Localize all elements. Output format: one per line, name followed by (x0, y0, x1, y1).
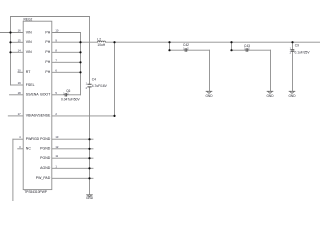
wire C42 drop (169, 42, 171, 50)
wire SS/ENA stub (10, 94, 24, 96)
node VSENSE corner junction (113, 115, 115, 117)
svg-text:VIN: VIN (26, 50, 32, 54)
node C42 row junction (168, 49, 170, 51)
wire top VIN to C4 (11, 16, 90, 18)
node PGND13 junction (88, 138, 90, 140)
svg-text:PH: PH (45, 30, 50, 34)
wire PH pin7 (52, 61, 81, 63)
svg-text:4.7uF/16V: 4.7uF/16V (92, 84, 108, 88)
capacitor C4 plates (65, 48, 294, 96)
wire PWRGD drop (12, 139, 14, 201)
capacitor C6 plates (65, 93, 66, 96)
wire AGND pin1 (52, 167, 93, 169)
wire left VIN bus (10, 17, 12, 86)
svg-text:GND: GND (205, 94, 213, 98)
capacitor C9 plates (291, 50, 295, 52)
svg-text:C4: C4 (92, 78, 96, 82)
svg-text:1: 1 (55, 164, 57, 168)
wire RT stub (18, 71, 23, 73)
wire PH pin8 (52, 51, 81, 53)
wire PGND pin12 (52, 148, 93, 150)
wire PH pin9 (52, 41, 81, 43)
node C9 top junction (291, 41, 293, 43)
svg-text:4: 4 (19, 135, 21, 139)
svg-text:PH: PH (45, 50, 50, 54)
op-amp U1 IC body TPS54310PWP (23, 21, 52, 189)
svg-text:0.1uF/25V: 0.1uF/25V (295, 50, 311, 54)
ground symbol power pad (86, 194, 93, 197)
node VIN input junction (9, 31, 11, 33)
svg-text:REG2: REG2 (24, 17, 33, 21)
svg-text:14: 14 (18, 48, 21, 52)
svg-text:20: 20 (18, 68, 21, 72)
svg-text:PWRGD: PWRGD (26, 137, 40, 141)
svg-text:PW_PAD: PW_PAD (36, 176, 51, 180)
wire C9 bottom lead (292, 51, 294, 91)
svg-text:13: 13 (55, 135, 58, 139)
svg-text:2: 2 (86, 87, 88, 90)
ground symbol under C42 (86, 91, 295, 197)
svg-text:PGND: PGND (40, 147, 51, 151)
node C43 top junction (230, 41, 232, 43)
wire VIN pin15 stub (11, 41, 24, 43)
node PH6 junction (79, 71, 81, 73)
svg-text:PGND: PGND (40, 156, 51, 160)
wire NC stub (18, 148, 23, 150)
ground symbol under C9 (289, 91, 296, 94)
wire PWRGD stub (13, 138, 23, 140)
wire PH pin10 (52, 32, 81, 34)
node VIN15 junction (9, 41, 11, 43)
svg-text:SS/ENA: SS/ENA (26, 93, 40, 97)
wire PGND pin11 (52, 157, 93, 159)
wire PH pin6 (52, 71, 81, 73)
wire PW_PAD (52, 177, 93, 179)
wire C43 ground drop (270, 50, 272, 91)
node PW_PAD junction (88, 177, 90, 179)
svg-text:RT: RT (26, 70, 31, 74)
svg-text:6: 6 (55, 68, 57, 72)
node PH9 junction (79, 41, 81, 43)
wire C4 bottom lead / ground bus (89, 87, 91, 195)
svg-text:GND: GND (266, 94, 274, 98)
svg-text:VSENSE: VSENSE (36, 114, 51, 118)
svg-text:5: 5 (55, 91, 57, 95)
svg-text:PGND: PGND (40, 137, 51, 141)
svg-text:10uH: 10uH (97, 43, 105, 47)
wire C4 top lead (89, 17, 91, 85)
node PH8 junction (79, 51, 81, 53)
capacitor C43 plates (246, 48, 248, 51)
svg-text:FSEL: FSEL (26, 83, 35, 87)
svg-text:8: 8 (55, 48, 57, 52)
wire BOOT to C6 (52, 94, 65, 96)
svg-text:7: 7 (55, 58, 57, 62)
svg-text:10: 10 (55, 29, 58, 33)
capacitor C42 plates (185, 48, 187, 51)
wire C6 to PH bus (67, 94, 81, 96)
svg-text:9: 9 (55, 38, 57, 42)
svg-text:PH: PH (45, 40, 50, 44)
svg-text:VIN: VIN (26, 40, 32, 44)
svg-text:VIN: VIN (26, 30, 32, 34)
wire PH bus (80, 33, 82, 95)
node junction dots (9, 31, 293, 179)
svg-text:GND: GND (86, 196, 94, 200)
wire PGND pin13 (52, 138, 93, 140)
svg-text:18: 18 (18, 91, 21, 95)
svg-text:16: 16 (18, 29, 21, 33)
svg-text:2: 2 (290, 52, 292, 55)
wire C43 left lead (232, 49, 247, 51)
svg-text:1: 1 (86, 82, 88, 85)
ground symbol under C43 (267, 91, 274, 94)
wire C42 ground drop (209, 50, 211, 91)
svg-text:GND: GND (288, 94, 296, 98)
wire C42 right lead (187, 49, 210, 51)
node C42 top junction (168, 41, 170, 43)
wire VIN pin14 stub (11, 51, 24, 53)
wire VIN input (0, 32, 23, 34)
wire C42 left lead (170, 49, 186, 51)
svg-text:C9: C9 (295, 44, 299, 48)
node VIN14 junction (9, 51, 11, 53)
svg-text:0.047uF/50V: 0.047uF/50V (61, 98, 80, 102)
svg-text:TPS54310PWP: TPS54310PWP (24, 190, 47, 194)
node PGND11 junction (88, 157, 90, 159)
svg-text:19: 19 (18, 81, 21, 85)
wire C43 right lead (248, 49, 271, 51)
svg-text:12: 12 (55, 145, 58, 149)
svg-text:2: 2 (55, 112, 57, 116)
wire VBIAS stub (8, 115, 23, 117)
svg-text:AGND: AGND (40, 166, 51, 170)
node AGND junction (88, 167, 90, 169)
svg-text:17: 17 (18, 112, 21, 116)
wire VSENSE feedback row (52, 115, 115, 117)
svg-text:PH: PH (45, 60, 50, 64)
wire C9 top lead (292, 42, 294, 50)
wire output (106, 41, 320, 43)
svg-text:NC: NC (26, 147, 32, 151)
wire C43 drop (231, 42, 233, 50)
svg-text:15: 15 (18, 38, 21, 42)
svg-text:PH: PH (45, 70, 50, 74)
wire PH to inductor (81, 41, 98, 43)
svg-text:L2: L2 (97, 37, 101, 41)
svg-text:11: 11 (55, 154, 58, 158)
node PH7 junction (79, 61, 81, 63)
svg-text:BOOT: BOOT (40, 93, 51, 97)
svg-text:3: 3 (19, 145, 21, 149)
wire FSEL stub (11, 84, 24, 86)
wire feedback drop (114, 42, 116, 116)
node C43 row junction (230, 49, 232, 51)
node PGND12 junction (88, 148, 90, 150)
inductor L2 coil (98, 41, 106, 42)
node VOUT feedback junction (113, 41, 115, 43)
